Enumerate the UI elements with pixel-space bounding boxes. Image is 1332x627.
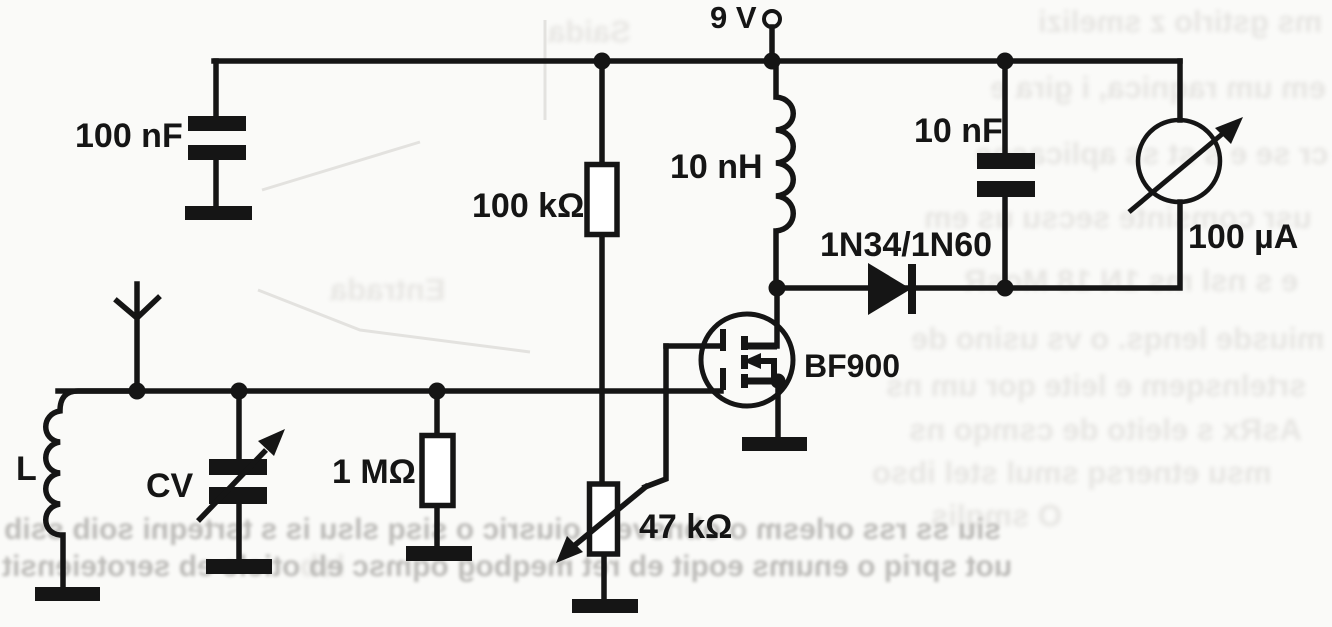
svg-text:100 kΩ: 100 kΩ (472, 187, 584, 225)
svg-text:1N34/1N60: 1N34/1N60 (820, 226, 992, 264)
svg-text:1 MΩ: 1 MΩ (332, 453, 416, 491)
svg-text:9 V: 9 V (710, 0, 757, 35)
svg-text:47 kΩ: 47 kΩ (639, 508, 732, 546)
svg-text:100 nF: 100 nF (75, 117, 183, 155)
svg-text:10 nH: 10 nH (670, 148, 763, 186)
svg-text:CV: CV (146, 467, 194, 505)
svg-text:100 µA: 100 µA (1188, 218, 1298, 256)
svg-text:10 nF: 10 nF (914, 112, 1003, 150)
svg-text:BF900: BF900 (804, 348, 900, 384)
svg-text:L: L (16, 450, 37, 488)
